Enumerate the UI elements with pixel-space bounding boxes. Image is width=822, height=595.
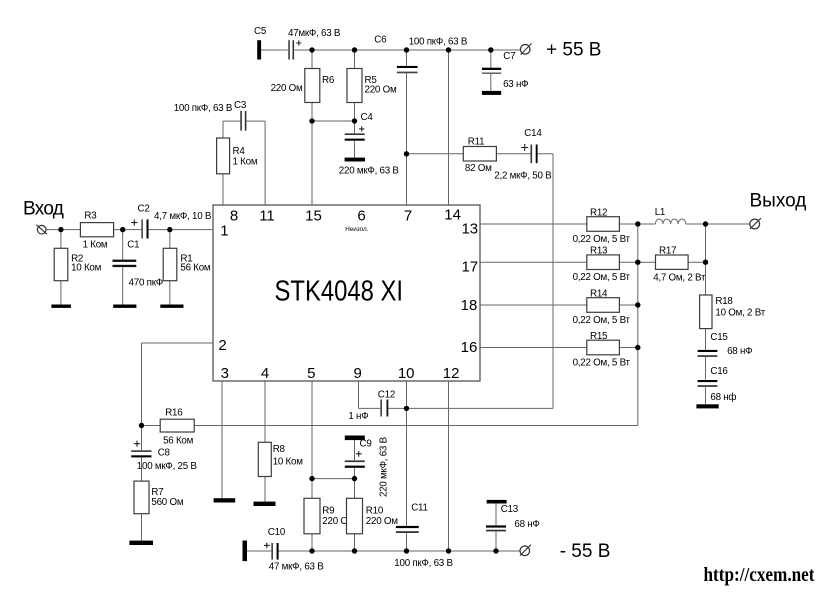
svg-text:8: 8 [230, 208, 238, 225]
svg-text:100 мкФ, 25 В: 100 мкФ, 25 В [137, 461, 198, 472]
svg-text:C14: C14 [524, 128, 542, 139]
svg-text:C12: C12 [378, 389, 395, 400]
svg-text:R9: R9 [322, 506, 334, 517]
svg-text:R15: R15 [590, 331, 608, 342]
svg-text:Вход: Вход [23, 199, 64, 220]
svg-text:R13: R13 [590, 246, 608, 257]
svg-text:100 пкФ, 63 В: 100 пкФ, 63 В [409, 36, 468, 47]
svg-text:C11: C11 [411, 502, 428, 513]
svg-text:10 Ом, 2 Вт: 10 Ом, 2 Вт [715, 308, 765, 319]
svg-text:C2: C2 [138, 204, 150, 215]
svg-text:47 мкФ, 63 В: 47 мкФ, 63 В [269, 562, 324, 573]
svg-text:C9: C9 [360, 438, 372, 449]
svg-text:220 Ом: 220 Ом [366, 516, 398, 527]
svg-text:1 нФ: 1 нФ [348, 411, 368, 422]
svg-text:10 Ком: 10 Ком [71, 262, 102, 273]
svg-text:STK4048 XI: STK4048 XI [275, 276, 404, 308]
svg-text:100 пкФ, 63 В: 100 пкФ, 63 В [174, 103, 233, 114]
svg-text:560 Ом: 560 Ом [151, 497, 183, 508]
svg-text:47мкФ, 63 В: 47мкФ, 63 В [288, 28, 341, 39]
svg-text:Неизол.: Неизол. [345, 226, 368, 233]
svg-text:68 нФ: 68 нФ [727, 346, 752, 357]
svg-text:Выход: Выход [750, 191, 807, 212]
svg-text:3: 3 [221, 365, 229, 382]
svg-text:0,22 Ом, 5 Вт: 0,22 Ом, 5 Вт [573, 315, 631, 326]
svg-text:7: 7 [404, 208, 412, 225]
svg-text:2: 2 [218, 337, 226, 354]
svg-text:L1: L1 [655, 207, 665, 218]
svg-text:68 нФ: 68 нФ [514, 519, 539, 530]
svg-text:14: 14 [444, 207, 461, 224]
svg-text:4,7 мкФ, 10 В: 4,7 мкФ, 10 В [154, 211, 212, 222]
svg-text:C5: C5 [254, 26, 267, 37]
svg-text:4,7 Ом, 2 Вт: 4,7 Ом, 2 Вт [653, 272, 706, 283]
svg-text:11: 11 [259, 208, 275, 225]
svg-text:R11: R11 [468, 137, 485, 148]
svg-text:C6: C6 [374, 35, 387, 46]
svg-text:2,2 мкФ, 50 В: 2,2 мкФ, 50 В [494, 170, 552, 181]
svg-text:C1: C1 [127, 239, 139, 250]
svg-text:1 Ком: 1 Ком [83, 240, 108, 251]
svg-text:R17: R17 [659, 245, 676, 256]
svg-text:5: 5 [307, 365, 315, 382]
svg-text:R18: R18 [715, 296, 733, 307]
svg-text:10 Ком: 10 Ком [273, 457, 304, 468]
svg-text:4: 4 [261, 365, 269, 382]
svg-text:12: 12 [443, 365, 460, 382]
svg-text:C13: C13 [501, 504, 519, 515]
svg-text:C4: C4 [361, 112, 374, 123]
svg-text:C8: C8 [158, 447, 171, 458]
svg-text:63 нФ: 63 нФ [503, 79, 528, 90]
svg-text:6: 6 [357, 208, 365, 225]
svg-text:0,22 Ом, 5 Вт: 0,22 Ом, 5 Вт [573, 234, 631, 245]
svg-text:470 пкФ: 470 пкФ [129, 278, 163, 289]
svg-text:15: 15 [305, 208, 322, 225]
svg-text:R3: R3 [84, 210, 97, 221]
svg-text:R4: R4 [233, 146, 246, 157]
svg-text:220 мкФ, 63 В: 220 мкФ, 63 В [379, 436, 390, 497]
svg-text:R8: R8 [273, 444, 286, 455]
svg-text:1 Ком: 1 Ком [233, 156, 258, 167]
svg-text:18: 18 [461, 297, 478, 314]
svg-text:R14: R14 [590, 289, 608, 300]
svg-text:R6: R6 [322, 75, 335, 86]
svg-text:0,22 Ом, 5 Вт: 0,22 Ом, 5 Вт [573, 357, 631, 368]
svg-text:56 Ком: 56 Ком [163, 435, 194, 446]
svg-text:R10: R10 [366, 506, 384, 517]
svg-text:100 пкФ, 63 В: 100 пкФ, 63 В [394, 558, 453, 569]
svg-text:R16: R16 [165, 408, 183, 419]
svg-text:220 Ом: 220 Ом [271, 83, 303, 94]
svg-text:R12: R12 [590, 208, 607, 219]
svg-text:- 55 В: - 55 В [560, 541, 611, 562]
svg-text:C10: C10 [268, 527, 286, 538]
svg-text:+ 55 В: + 55 В [546, 40, 601, 61]
svg-text:220 мкФ, 63 В: 220 мкФ, 63 В [339, 166, 400, 177]
svg-text:68 нф: 68 нф [710, 392, 736, 403]
svg-text:C15: C15 [710, 332, 728, 343]
svg-text:56 Ком: 56 Ком [180, 262, 211, 273]
svg-text:C3: C3 [234, 100, 247, 111]
svg-text:9: 9 [354, 365, 362, 382]
svg-text:220 Ом: 220 Ом [365, 85, 397, 96]
svg-text:82 Ом: 82 Ом [465, 163, 492, 174]
svg-text:C7: C7 [503, 51, 515, 62]
svg-text:10: 10 [398, 365, 415, 382]
svg-text:13: 13 [461, 221, 478, 238]
svg-text:1: 1 [220, 223, 228, 240]
svg-text:16: 16 [461, 339, 478, 356]
svg-text:17: 17 [461, 259, 478, 276]
svg-text:C16: C16 [710, 366, 728, 377]
svg-text:0,22 Ом, 5 Вт: 0,22 Ом, 5 Вт [573, 272, 631, 283]
svg-text:http://cxem.net: http://cxem.net [704, 565, 815, 586]
